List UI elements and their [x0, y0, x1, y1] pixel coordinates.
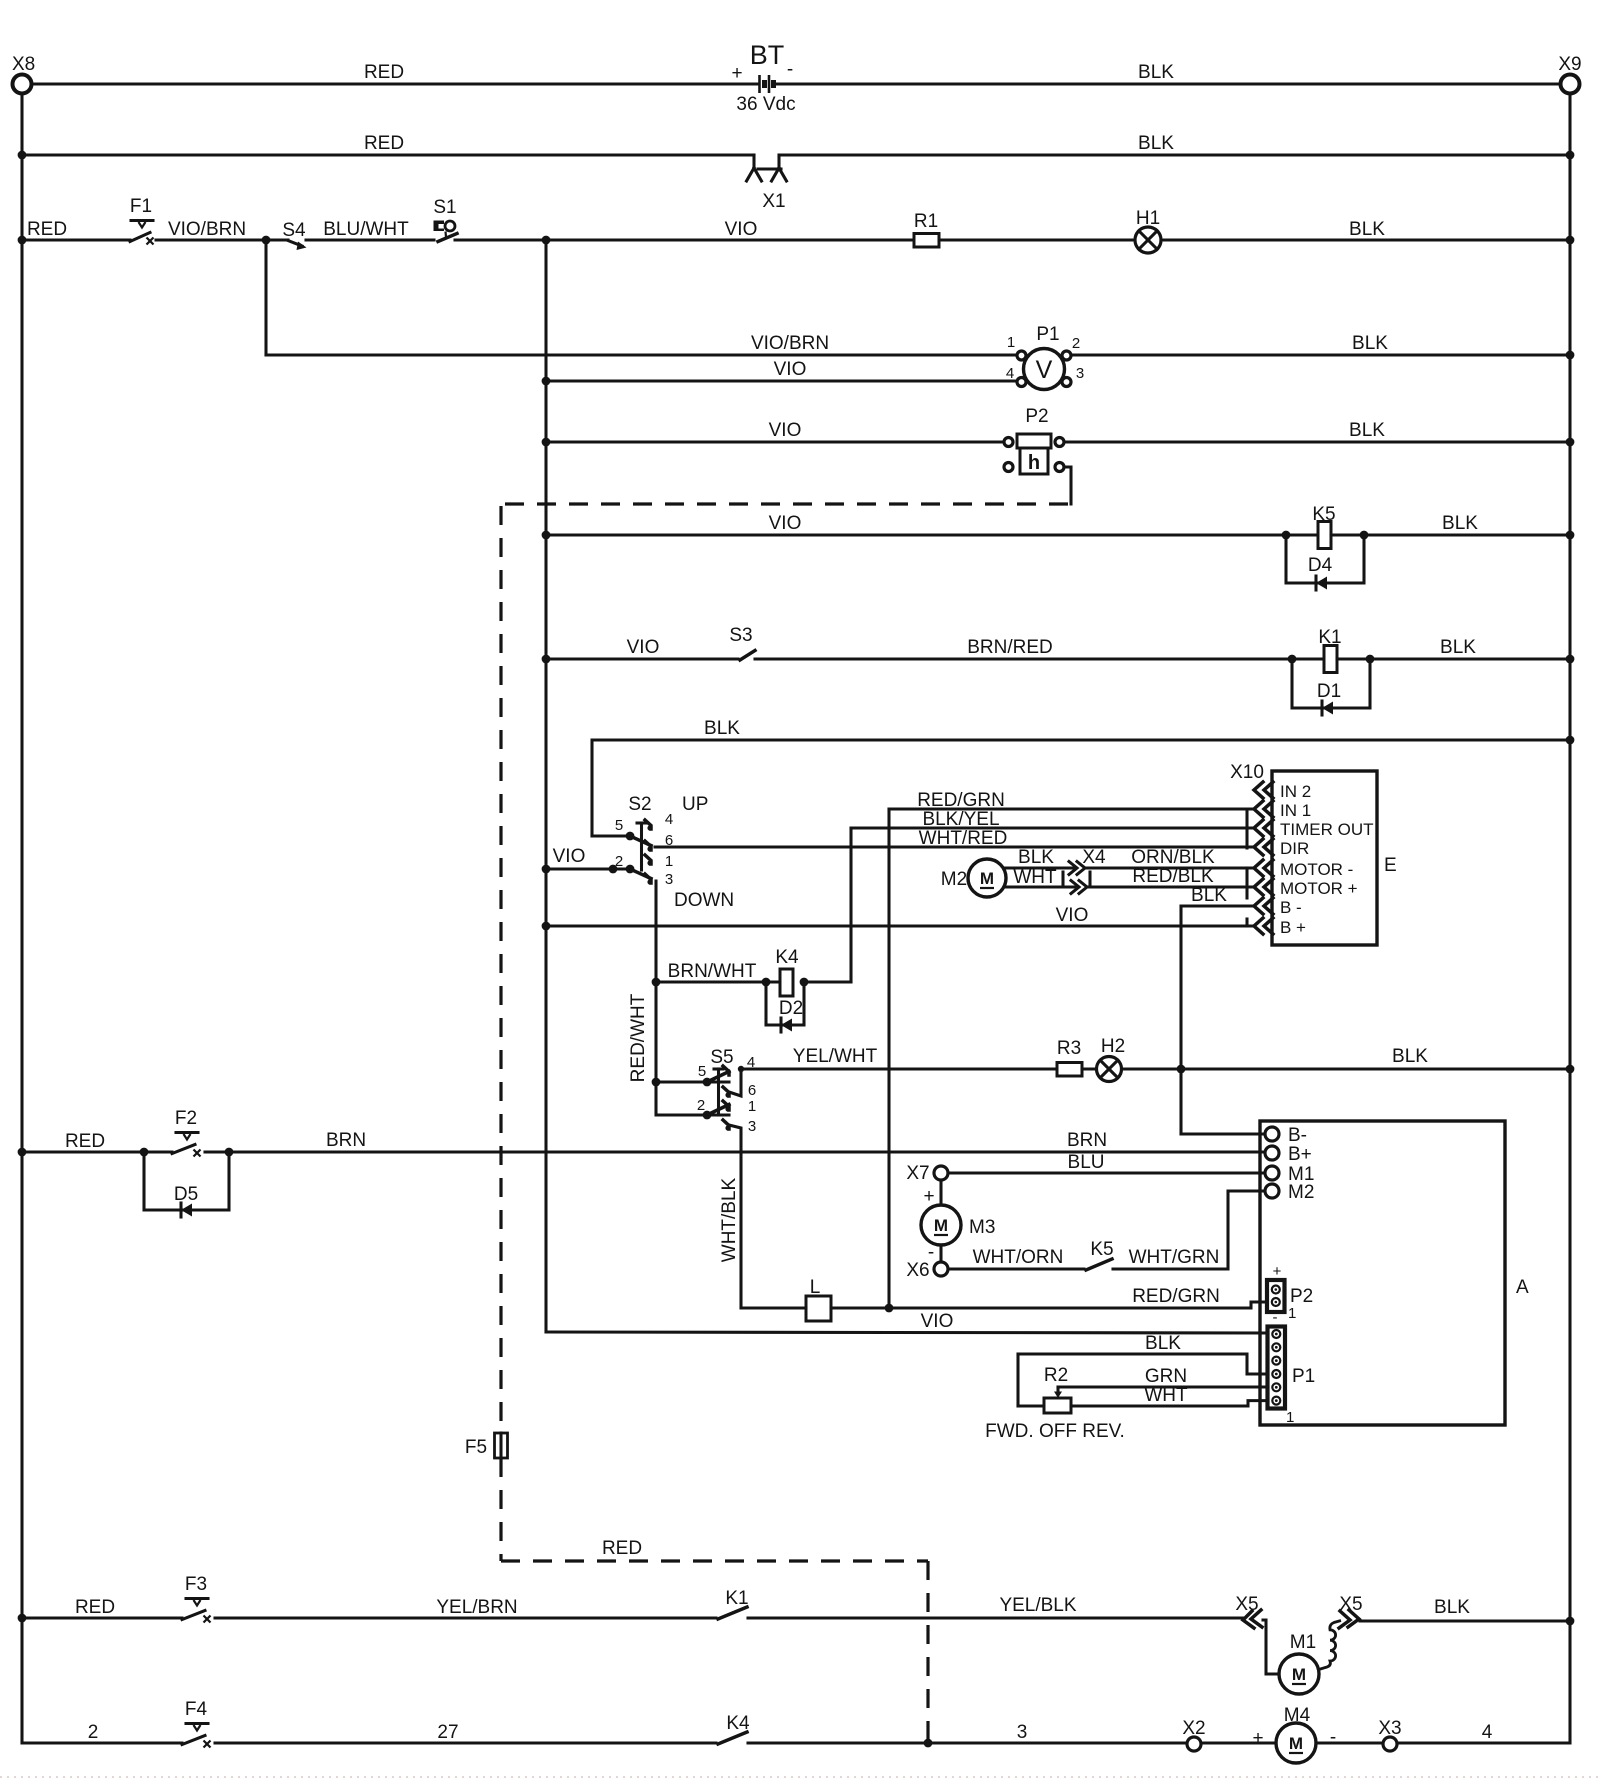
wire P1 pin2 BLK: [1071, 333, 1570, 355]
voltmeter P1: [1006, 324, 1084, 390]
svg-text:BLK: BLK: [1138, 62, 1174, 83]
svg-text:X5: X5: [1235, 1594, 1258, 1615]
wire right bus: [1568, 94, 1571, 1743]
svg-text:VIO: VIO: [769, 420, 802, 441]
node VIO S3: [542, 655, 551, 664]
node dashed to row: [924, 1739, 933, 1748]
svg-text:-: -: [1273, 1309, 1278, 1326]
connector X10 pin B-: [1254, 898, 1273, 914]
wire BLK/YEL to TIMER OUT: [851, 809, 1253, 830]
node BLK right bus: [1566, 736, 1575, 745]
potentiometer R2: [985, 1365, 1125, 1442]
wire RED to F2: [22, 1131, 172, 1152]
svg-text:X4: X4: [1082, 847, 1106, 868]
svg-text:BRN/RED: BRN/RED: [967, 637, 1053, 658]
svg-text:V: V: [1036, 356, 1053, 384]
svg-text:BRN: BRN: [1067, 1130, 1107, 1151]
wire D5 branch: [144, 1152, 229, 1210]
node K4 right: [800, 978, 809, 987]
svg-text:VIO: VIO: [725, 219, 758, 240]
svg-text:S3: S3: [729, 625, 752, 646]
svg-text:WHT/RED: WHT/RED: [919, 828, 1008, 849]
wire R3 to H2: [1082, 1067, 1096, 1070]
wire row3 BLK: [1161, 219, 1570, 240]
node VIO bus top: [542, 236, 551, 245]
node row3 left: [18, 236, 27, 245]
svg-text:+: +: [731, 63, 742, 84]
svg-text:3: 3: [1017, 1722, 1028, 1743]
page edge dotted: [0, 1776, 1600, 1778]
wire row3 VIO: [455, 219, 914, 240]
svg-text:MOTOR -: MOTOR -: [1280, 860, 1353, 879]
wire WHT to P1 pin: [1071, 1385, 1268, 1406]
wire row3 VIO/BRN: [156, 219, 288, 240]
svg-text:VIO: VIO: [627, 637, 660, 658]
svg-text:2: 2: [88, 1722, 99, 1743]
terminal X3: [1378, 1718, 1401, 1751]
wire BLK upper (S2 pin5 feed): [592, 718, 1570, 836]
svg-text:X6: X6: [906, 1260, 929, 1281]
wire BLU X7 to M1: [948, 1152, 1265, 1173]
svg-text:MOTOR +: MOTOR +: [1280, 879, 1358, 898]
svg-text:2: 2: [697, 1097, 705, 1114]
diode D4: [1308, 555, 1333, 590]
box A controller: [1260, 1121, 1529, 1425]
svg-text:BLK: BLK: [1442, 513, 1478, 534]
resistor R1: [914, 211, 939, 247]
svg-text:BLK: BLK: [1349, 420, 1385, 441]
svg-text:RED: RED: [27, 219, 67, 240]
svg-text:1: 1: [665, 853, 673, 870]
svg-text:BLK: BLK: [1191, 885, 1227, 906]
node H2 row right: [1566, 1065, 1575, 1074]
wire K1 diode branch: [1292, 659, 1370, 708]
svg-text:TIMER OUT: TIMER OUT: [1280, 820, 1374, 839]
node P1 row right: [1566, 351, 1575, 360]
svg-text:M: M: [980, 869, 994, 888]
node VIO K5: [542, 531, 551, 540]
resistor R3: [1057, 1038, 1082, 1076]
wire M2 WHT to X4: [1004, 867, 1075, 888]
motor M4: [1276, 1705, 1316, 1763]
svg-text:R3: R3: [1057, 1038, 1081, 1059]
svg-text:+: +: [1252, 1728, 1263, 1749]
svg-text:GRN: GRN: [1145, 1366, 1187, 1387]
wire WHT/GRN to A M2: [1113, 1191, 1265, 1269]
svg-text:3: 3: [748, 1118, 756, 1135]
connector X5 left: [1235, 1594, 1262, 1628]
svg-text:VIO/BRN: VIO/BRN: [751, 333, 829, 354]
terminal A B-: [1265, 1125, 1307, 1146]
wire dashed timer feed: [501, 502, 1068, 505]
svg-text:DOWN: DOWN: [674, 890, 734, 911]
node L out to IN1 riser: [885, 1304, 894, 1313]
svg-text:-: -: [1330, 1727, 1336, 1748]
svg-text:27: 27: [437, 1722, 458, 1743]
connector X10 pin B+: [1254, 918, 1273, 934]
node VIO P2: [542, 438, 551, 447]
wire BLK drop to R2: [1016, 1354, 1019, 1406]
wire top BLK (battery to X9): [776, 62, 1560, 84]
wire dashed below F5: [499, 1458, 502, 1561]
svg-text:K4: K4: [775, 947, 799, 968]
svg-text:M4: M4: [1284, 1705, 1311, 1726]
motor M2: [941, 859, 1006, 897]
svg-text:X7: X7: [906, 1163, 929, 1184]
svg-text:WHT/ORN: WHT/ORN: [973, 1247, 1064, 1268]
node F2 row left: [18, 1148, 27, 1157]
connector X10 pin MOTOR-: [1254, 860, 1273, 876]
node VIO S2: [542, 865, 551, 874]
switch S4: [282, 220, 306, 250]
wire M2 BLK to X4: [1004, 847, 1073, 868]
node F3 row left: [18, 1614, 27, 1623]
inductor L: [806, 1277, 831, 1321]
svg-text:M1: M1: [1290, 1632, 1316, 1653]
svg-text:YEL/WHT: YEL/WHT: [793, 1046, 878, 1067]
wire X7 to M3: [939, 1180, 942, 1205]
svg-text:B +: B +: [1280, 918, 1306, 937]
wire 3 to X2: [748, 1722, 1187, 1743]
wire VIO to A P1: [546, 1311, 1268, 1333]
svg-text:BLK: BLK: [1145, 1333, 1181, 1354]
svg-text:RED: RED: [602, 1538, 642, 1559]
svg-text:IN 1: IN 1: [1280, 801, 1311, 820]
node VIO B+: [542, 922, 551, 931]
svg-text:RED/BLK: RED/BLK: [1132, 866, 1214, 887]
breaker F1: [130, 196, 154, 245]
svg-text:D1: D1: [1317, 681, 1341, 702]
svg-text:YEL/BLK: YEL/BLK: [999, 1595, 1076, 1616]
svg-text:4: 4: [665, 811, 673, 828]
node H2 B- junction: [1177, 1065, 1186, 1074]
wire RED to F3: [22, 1597, 182, 1618]
svg-text:M: M: [934, 1216, 948, 1235]
svg-text:D5: D5: [174, 1184, 198, 1205]
wire H2 BLK: [1122, 1046, 1571, 1069]
svg-text:4: 4: [1482, 1722, 1493, 1743]
svg-text:VIO/BRN: VIO/BRN: [168, 219, 246, 240]
svg-text:M2: M2: [1288, 1182, 1314, 1203]
svg-text:UP: UP: [682, 794, 708, 815]
wire VIO to P1 pin4: [546, 359, 1017, 381]
node K5 row right: [1566, 531, 1575, 540]
svg-text:BLK/YEL: BLK/YEL: [922, 809, 999, 830]
svg-text:BLK: BLK: [1018, 847, 1054, 868]
terminal A B+: [1265, 1144, 1312, 1165]
svg-text:X10: X10: [1230, 762, 1264, 783]
diode D1: [1317, 681, 1341, 715]
svg-text:S1: S1: [433, 197, 456, 218]
motor M3: [921, 1205, 995, 1245]
svg-text:M: M: [1289, 1734, 1303, 1753]
breaker F2: [172, 1108, 201, 1157]
connector A P2: [1267, 1263, 1313, 1326]
wire R2 wiper GRN to P1 pin: [1058, 1366, 1268, 1387]
wire dashed drop to K4 row: [926, 1561, 929, 1740]
wire VIO main bus: [544, 240, 547, 1332]
wire S2 contact3 down: [654, 881, 657, 1082]
svg-text:P2: P2: [1025, 406, 1048, 427]
svg-text:P1: P1: [1036, 324, 1059, 345]
connector X10 pin MOTOR+: [1254, 879, 1273, 895]
connector A P1: [1268, 1327, 1316, 1427]
wire BRN/WHT to K4: [656, 961, 780, 982]
svg-text:F3: F3: [185, 1574, 207, 1595]
svg-text:BLK: BLK: [1392, 1046, 1428, 1067]
wire bottom row 2 to F4: [22, 1722, 182, 1743]
svg-text:BRN/WHT: BRN/WHT: [668, 961, 757, 982]
svg-text:RED: RED: [364, 133, 404, 154]
svg-text:VIO: VIO: [553, 846, 586, 867]
svg-text:M3: M3: [969, 1217, 995, 1238]
node S2 pin2 a: [609, 865, 618, 874]
node row3 right: [1566, 236, 1575, 245]
svg-text:RED: RED: [364, 62, 404, 83]
diode D2: [779, 998, 803, 1032]
node K1 right: [1366, 655, 1375, 664]
wire BLK to P1 pin: [1018, 1333, 1268, 1374]
svg-text:BLU/WHT: BLU/WHT: [323, 219, 409, 240]
wire WHT/ORN to K5 contact: [948, 1247, 1084, 1269]
svg-text:1: 1: [748, 1098, 756, 1115]
wire B- BLK: [1181, 885, 1253, 906]
svg-text:X1: X1: [762, 191, 785, 212]
svg-text:2: 2: [1072, 335, 1080, 352]
wire RED/GRN to IN1: [889, 790, 1253, 811]
svg-text:B-: B-: [1288, 1125, 1307, 1146]
wire WHT/BLK into L: [741, 1306, 806, 1309]
svg-text:M2: M2: [941, 869, 967, 890]
svg-text:X8: X8: [12, 54, 35, 75]
svg-text:F1: F1: [130, 196, 152, 217]
svg-text:BLK: BLK: [1352, 333, 1388, 354]
svg-text:WHT: WHT: [1144, 1385, 1188, 1406]
svg-text:H1: H1: [1136, 208, 1160, 229]
relay coil K1: [1318, 627, 1341, 673]
terminal X2: [1182, 1718, 1205, 1751]
wire B- into A: [1181, 1132, 1265, 1135]
node S2 pin2 b: [626, 865, 635, 874]
svg-text:VIO: VIO: [774, 359, 807, 380]
wire S2 down vertical to S5 via RED/WHT: [849, 828, 852, 982]
svg-text:X2: X2: [1182, 1718, 1205, 1739]
wire M4 to X3: [1316, 1727, 1383, 1748]
terminal X6: [906, 1260, 948, 1281]
relay coil K5: [1312, 504, 1335, 549]
relay contact K1: [718, 1588, 749, 1619]
svg-text:X3: X3: [1378, 1718, 1401, 1739]
terminal X9: [1558, 54, 1581, 94]
svg-text:S2: S2: [628, 794, 651, 815]
motor M1: [1279, 1632, 1319, 1694]
svg-text:R2: R2: [1044, 1365, 1068, 1386]
svg-text:1: 1: [1286, 1409, 1294, 1426]
svg-text:E: E: [1384, 855, 1397, 876]
node row2 left: [18, 151, 27, 160]
wire R1 to H1: [939, 238, 1135, 241]
wire left bus: [20, 94, 23, 1743]
svg-text:BLU: BLU: [1068, 1152, 1105, 1173]
svg-text:F4: F4: [185, 1699, 208, 1720]
svg-text:VIO: VIO: [921, 1311, 954, 1332]
node S4 branch: [262, 236, 271, 245]
svg-text:BLK: BLK: [1434, 1597, 1470, 1618]
connector X10 group bar lower: [1245, 868, 1248, 898]
svg-text:YEL/BRN: YEL/BRN: [436, 1597, 517, 1618]
wire BLK M1 to bus: [1360, 1597, 1570, 1621]
wire VIO to S3: [546, 637, 738, 659]
svg-text:4: 4: [1006, 365, 1014, 382]
svg-text:3: 3: [665, 871, 673, 888]
svg-text:BLK: BLK: [1349, 219, 1385, 240]
svg-text:S4: S4: [282, 220, 306, 241]
wire RED/BLK to MOTOR+: [1088, 866, 1253, 887]
connector X10 pin IN1: [1254, 801, 1273, 817]
wire VIO to P2: [546, 420, 1004, 442]
connector X4 upper: [1069, 847, 1106, 875]
node M1 row right: [1566, 1617, 1575, 1626]
lamp H2: [1097, 1036, 1126, 1082]
wire K4 diode branch: [766, 982, 804, 1025]
switch S2 rocker: [592, 794, 734, 911]
wire BRN/RED: [755, 637, 1324, 659]
svg-text:D2: D2: [779, 998, 803, 1019]
svg-text:6: 6: [748, 1082, 756, 1099]
svg-text:RED: RED: [75, 1597, 115, 1618]
wire K1 row BLK: [1337, 637, 1570, 659]
wire VIO to B+: [546, 905, 1253, 926]
svg-text:M: M: [1292, 1665, 1306, 1684]
node row2 right: [1566, 151, 1575, 160]
svg-text:RED/WHT: RED/WHT: [628, 993, 649, 1082]
svg-text:F5: F5: [465, 1437, 487, 1458]
relay coil K4: [775, 947, 799, 996]
connector X10 group bar upper: [1245, 812, 1248, 848]
node VIO pin4: [542, 377, 551, 386]
svg-text:WHT/GRN: WHT/GRN: [1129, 1247, 1220, 1268]
terminal X7: [906, 1163, 948, 1184]
svg-text:BRN: BRN: [326, 1130, 366, 1151]
connector X5 right: [1339, 1594, 1363, 1628]
svg-text:D4: D4: [1308, 555, 1333, 576]
svg-text:5: 5: [698, 1063, 706, 1080]
wire row2 BLK: [779, 133, 1570, 155]
wire K5 row BLK: [1331, 513, 1570, 535]
svg-text:h: h: [1028, 452, 1040, 474]
connector X4 lower: [1063, 872, 1090, 894]
wire top RED (X8 to battery): [32, 62, 757, 84]
switch S2 lower blade: [630, 869, 651, 879]
wire K5 diode branch: [1286, 535, 1364, 583]
svg-text:RED: RED: [65, 1131, 105, 1152]
wire WHT/RED to DIR: [655, 828, 1253, 849]
fuse F5: [465, 1433, 508, 1458]
svg-text:BLK: BLK: [704, 718, 740, 739]
svg-text:RED/GRN: RED/GRN: [917, 790, 1005, 811]
svg-text:BT: BT: [750, 40, 785, 70]
svg-text:FWD. OFF REV.: FWD. OFF REV.: [985, 1421, 1125, 1442]
connector X1: [747, 155, 787, 212]
lamp H1: [1135, 208, 1161, 253]
relay contact K4: [718, 1713, 750, 1744]
wire YEL/WHT to R3: [741, 1046, 1057, 1069]
wire B- vertical: [1179, 906, 1182, 1134]
svg-text:IN 2: IN 2: [1280, 782, 1311, 801]
svg-text:R1: R1: [914, 211, 938, 232]
wire BRN to A B+: [205, 1130, 1265, 1152]
svg-text:F2: F2: [175, 1108, 197, 1129]
relay contact K5: [1086, 1239, 1114, 1270]
svg-text:VIO: VIO: [1056, 905, 1089, 926]
wire row2 RED: [22, 133, 754, 155]
breaker F4: [182, 1699, 211, 1748]
wire 27 to K4 contact: [215, 1722, 716, 1743]
inductor M1 field coil: [1317, 1621, 1341, 1671]
box E controller: [1230, 762, 1397, 945]
wire VIO to S2 pin2: [546, 846, 630, 869]
wire VIO to K5: [546, 513, 1318, 535]
node D5 left: [140, 1148, 149, 1157]
svg-text:ORN/BLK: ORN/BLK: [1131, 847, 1215, 868]
node D5 right: [225, 1148, 234, 1157]
svg-text:H2: H2: [1101, 1036, 1125, 1057]
svg-text:36 Vdc: 36 Vdc: [736, 94, 795, 115]
wire row3 BLU/WHT: [306, 219, 434, 240]
wire ORN/BLK to MOTOR-: [1086, 847, 1253, 868]
node K1 left: [1288, 655, 1297, 664]
svg-text:P1: P1: [1292, 1366, 1315, 1387]
node P2 row right: [1566, 438, 1575, 447]
svg-text:BLK: BLK: [1138, 133, 1174, 154]
wire YEL/BLK to X5: [748, 1595, 1243, 1618]
svg-text:P2: P2: [1290, 1286, 1313, 1307]
svg-text:+: +: [923, 1186, 934, 1207]
switch S5 rocker: [652, 1047, 757, 1308]
svg-text:X9: X9: [1558, 54, 1581, 75]
diode D5: [174, 1184, 198, 1217]
terminal X8: [12, 54, 35, 94]
switch S1 (key switch): [433, 197, 457, 242]
svg-text:VIO: VIO: [769, 513, 802, 534]
wire L to IN1 vertical: [887, 809, 890, 1308]
node K5 left: [1282, 531, 1291, 540]
svg-text:B -: B -: [1280, 898, 1302, 917]
svg-text:WHT/BLK: WHT/BLK: [719, 1177, 740, 1262]
node K4 left: [762, 978, 771, 987]
wire YEL/BRN: [215, 1597, 716, 1618]
wire VIO/BRN to P1: [266, 333, 1017, 355]
wire P2 hour meter tap: [1064, 467, 1071, 504]
switch S3: [729, 625, 755, 660]
connector X10 pin DIR: [1254, 839, 1273, 855]
svg-text:+: +: [1273, 1263, 1282, 1280]
node K1 row right: [1566, 655, 1575, 664]
connector X10 pin TIMER OUT: [1254, 820, 1273, 836]
wire M3 to X6: [939, 1245, 942, 1262]
wire P2 BLK: [1064, 420, 1570, 442]
wire K4 to TIMER OUT riser: [804, 980, 851, 983]
svg-text:WHT: WHT: [1013, 867, 1057, 888]
svg-text:-: -: [787, 59, 793, 80]
svg-text:DIR: DIR: [1280, 839, 1309, 858]
svg-text:3: 3: [1076, 365, 1084, 382]
wire 4 to right bus: [1397, 1722, 1570, 1743]
svg-text:B+: B+: [1288, 1144, 1312, 1165]
wire dashed left drop: [499, 506, 502, 1433]
hour meter P2: [1004, 406, 1064, 474]
breaker F3: [182, 1574, 211, 1623]
